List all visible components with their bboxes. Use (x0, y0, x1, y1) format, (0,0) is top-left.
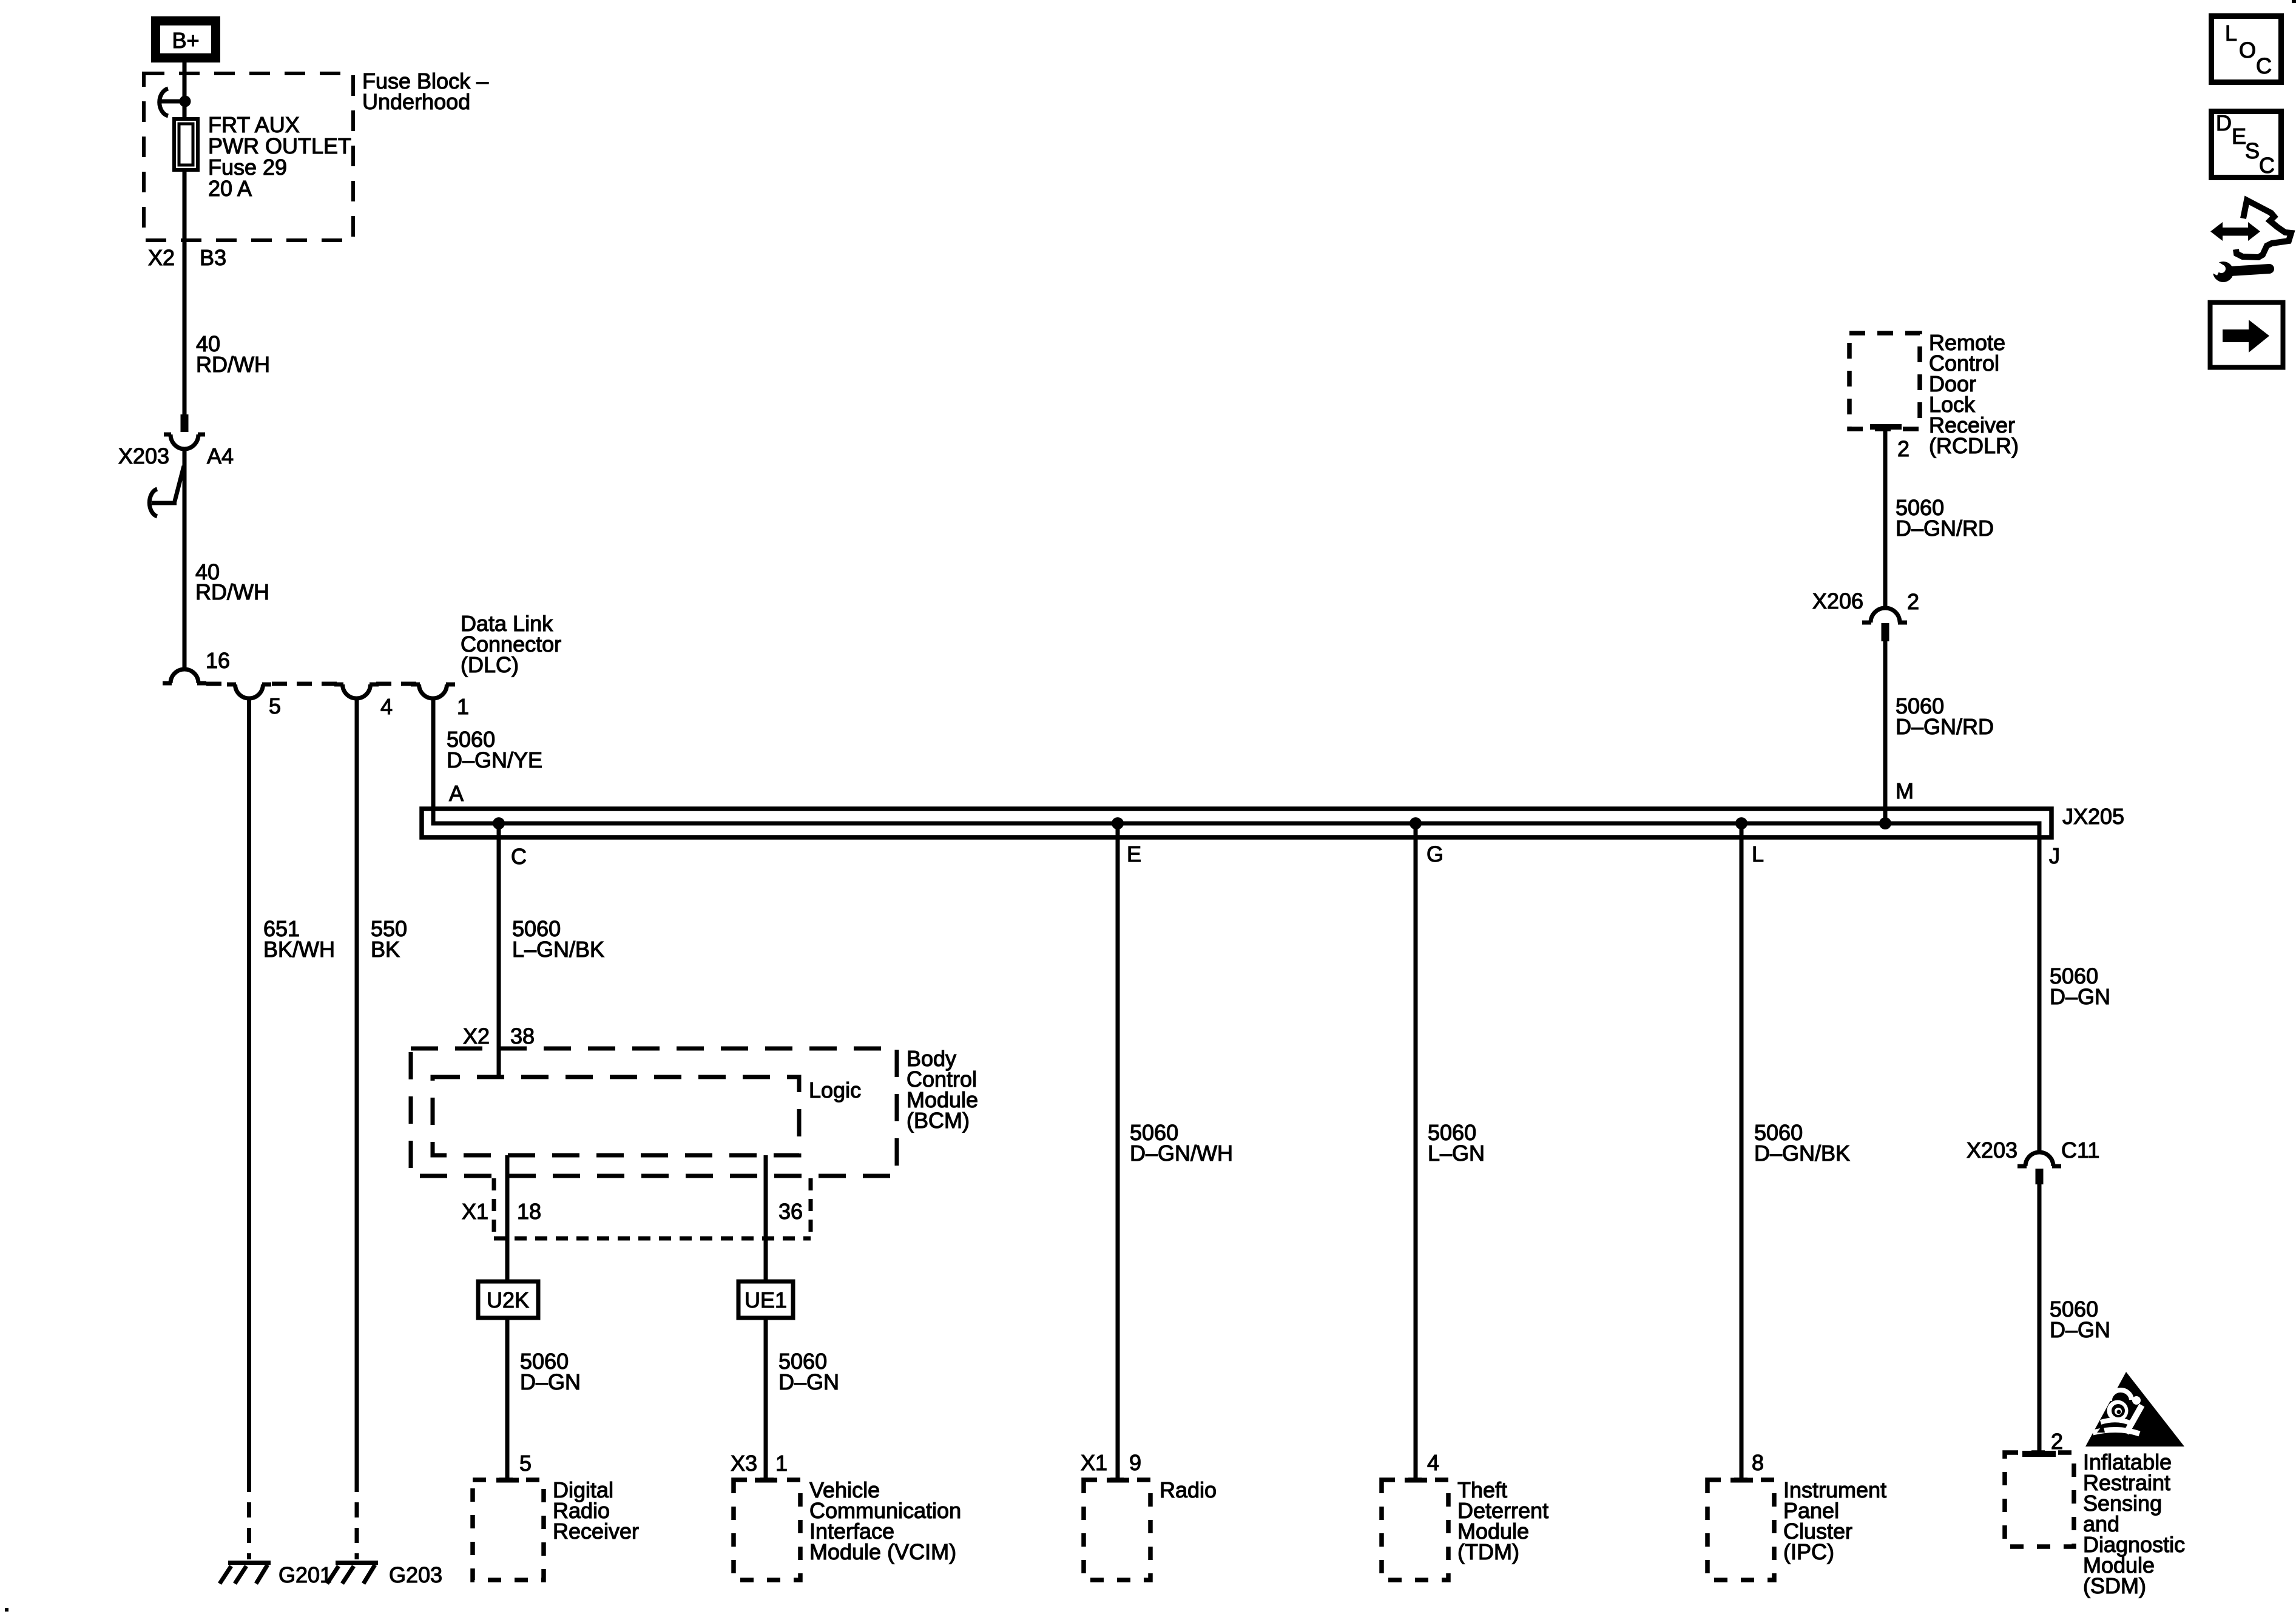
forward arrow icon box (2210, 303, 2283, 368)
body control module BCM dashed box (411, 1048, 897, 1176)
remote control door lock receiver dashed box (1849, 333, 1920, 430)
svg-text:36: 36 (778, 1199, 803, 1224)
TDM label (1457, 1477, 1548, 1564)
svg-text:BK/WH: BK/WH (263, 937, 335, 962)
svg-text:1: 1 (775, 1451, 788, 1476)
svg-text:D–GN: D–GN (2050, 1317, 2110, 1342)
in-line connector X203 C11 female arc (2017, 1152, 2061, 1166)
svg-text:UE1: UE1 (745, 1288, 787, 1312)
ground G203 (327, 1563, 378, 1584)
wire B+ to fuse (183, 62, 187, 117)
svg-text:D–GN/YE: D–GN/YE (447, 748, 542, 772)
wire UE1 to VCIM (764, 1318, 768, 1481)
svg-text:A: A (449, 781, 464, 806)
svg-text:JX205: JX205 (2062, 804, 2124, 829)
radio dashed box (1084, 1478, 1150, 1581)
svg-text:X1: X1 (1081, 1450, 1107, 1475)
VCIM dashed box (734, 1478, 800, 1581)
battery feed B+ symbol (156, 21, 216, 58)
svg-text:X3: X3 (731, 1451, 757, 1476)
svg-text:4: 4 (1427, 1450, 1439, 1475)
svg-text:J: J (2049, 843, 2060, 868)
digital radio receiver dashed box (473, 1478, 544, 1581)
splice pack internal bus wire (433, 698, 2039, 846)
svg-text:1: 1 (457, 694, 469, 719)
svg-text:X203: X203 (1967, 1138, 2017, 1163)
svg-text:2: 2 (2051, 1429, 2063, 1454)
in-line connector X203 C11 male terminal (2036, 1169, 2044, 1184)
data link UE1 box (738, 1281, 793, 1318)
connector X2 B3 label (148, 245, 226, 270)
DESC icon box (2212, 110, 2281, 178)
connector X206 labels (1812, 589, 1919, 614)
svg-text:L–GN: L–GN (1428, 1141, 1485, 1166)
diagnostic connector icon wrench (2205, 257, 2269, 282)
in-line connector X206 female arc (1862, 608, 1907, 623)
junction node L (1735, 817, 1747, 829)
bus bar clip in fuse block (159, 89, 191, 116)
svg-text:Logic: Logic (809, 1078, 861, 1102)
theft deterrent module dashed box (1382, 1478, 1448, 1581)
wire label 5060 D-GN/BK (1754, 1120, 1850, 1166)
svg-text:(IPC): (IPC) (1783, 1539, 1834, 1564)
junction node M (1879, 817, 1891, 829)
BCM X1 connector dashed strip (494, 1178, 811, 1238)
fuse block label (362, 69, 488, 114)
svg-text:RD/WH: RD/WH (196, 352, 270, 377)
wire J 5060 D-GN down to SDM (2038, 838, 2042, 1152)
svg-text:A4: A4 (207, 444, 234, 468)
svg-text:8: 8 (1752, 1450, 1764, 1475)
wire label 5060 D-GN/RD upper (1896, 495, 1994, 541)
svg-text:C: C (2256, 53, 2272, 78)
svg-text:D–GN: D–GN (2050, 984, 2110, 1009)
wire label 550 BK (371, 916, 407, 962)
junction node G (1410, 817, 1422, 829)
svg-text:RD/WH: RD/WH (195, 579, 269, 604)
svg-text:G203: G203 (389, 1562, 442, 1587)
svg-text:2: 2 (1907, 589, 1919, 614)
ground G201 (220, 1563, 271, 1584)
svg-text:(DLC): (DLC) (461, 652, 519, 677)
svg-text:Radio: Radio (1160, 1477, 1217, 1502)
in-line connector X203 A4 female arc (164, 434, 205, 449)
wire label 5060 D-GN/RD lower (1896, 694, 1994, 739)
svg-text:9: 9 (1129, 1450, 1141, 1475)
svg-text:E: E (2232, 124, 2246, 149)
svg-text:20 A: 20 A (208, 176, 252, 201)
instrument panel cluster dashed box (1707, 1478, 1774, 1581)
DLC pin 4 arc (334, 684, 379, 698)
svg-text:18: 18 (517, 1199, 541, 1224)
wire label 5060 D-GN/WH (1130, 1120, 1233, 1166)
svg-text:5: 5 (269, 694, 281, 718)
svg-text:G201: G201 (279, 1562, 332, 1587)
svg-text:X2: X2 (463, 1024, 490, 1048)
IPC label (1783, 1477, 1886, 1564)
wire BCM pin 36 to UE1 (764, 1155, 768, 1281)
svg-text:16: 16 (206, 648, 230, 673)
fuse label (208, 112, 351, 201)
wire label 5060 D-GN upper (2050, 964, 2110, 1009)
svg-text:5: 5 (519, 1451, 532, 1476)
svg-text:B3: B3 (200, 245, 226, 270)
svg-text:Receiver: Receiver (553, 1519, 639, 1544)
svg-text:B+: B+ (172, 28, 199, 53)
svg-text:D–GN/RD: D–GN/RD (1896, 714, 1994, 739)
svg-text:M: M (1896, 778, 1914, 803)
SDM label (2083, 1450, 2185, 1598)
svg-text:(RCDLR): (RCDLR) (1929, 433, 2019, 458)
wire E 5060 D-GN/WH to radio (1116, 823, 1120, 1481)
in-line connector X206 male terminal (1882, 623, 1889, 641)
wire label 651 BK/WH (263, 916, 335, 962)
wire 550 BK pin4 to G203 (355, 698, 359, 1559)
svg-text:(BCM): (BCM) (907, 1108, 970, 1133)
inflatable restraint SDM dashed box (2005, 1451, 2074, 1547)
wire C 5060 L-GN/BK to BCM (497, 823, 501, 1079)
wire BCM pin 18 to U2K (505, 1155, 510, 1281)
wire M 5060 D-GN/RD up to X206 (1883, 641, 1888, 823)
svg-text:38: 38 (510, 1024, 535, 1048)
wire label 40 RD/WH lower (195, 559, 269, 604)
wire label 5060 L-GN/BK (512, 916, 604, 962)
pin labels X1 9 (1081, 1450, 1141, 1475)
svg-text:D–GN: D–GN (778, 1369, 839, 1394)
svg-text:C: C (2259, 153, 2275, 178)
wire X206 to RCDLR (1883, 427, 1888, 609)
svg-text:E: E (1127, 842, 1141, 866)
BCM logic dashed box (433, 1077, 799, 1155)
junction node E (1112, 817, 1124, 829)
pin labels X3 1 (731, 1451, 788, 1476)
wire through fuse down to connector X203 (183, 172, 187, 414)
wire label 5060 D-GN (UE1) (778, 1349, 839, 1394)
svg-text:X2: X2 (148, 245, 175, 270)
connector X203 A4 labels (118, 444, 234, 468)
BCM X1 pin labels X1 18 36 (462, 1199, 803, 1224)
svg-text:D: D (2216, 110, 2232, 135)
svg-text:(TDM): (TDM) (1457, 1539, 1519, 1564)
svg-text:X203: X203 (118, 444, 169, 468)
page mark top right (2292, 0, 2296, 3)
wire label 5060 D-GN/YE (447, 727, 542, 772)
svg-text:D–GN/BK: D–GN/BK (1754, 1141, 1850, 1166)
data link U2K box (478, 1281, 538, 1318)
svg-text:2: 2 (1897, 436, 1909, 461)
digital radio receiver label (553, 1477, 639, 1544)
wire L 5060 D-GN/BK to IPC (1740, 823, 1744, 1481)
airbag warning triangle (2085, 1372, 2184, 1447)
wire X203 C11 to SDM (2038, 1184, 2042, 1454)
junction node C (493, 817, 505, 829)
svg-text:D–GN/WH: D–GN/WH (1130, 1141, 1233, 1166)
page mark bottom left (5, 1608, 8, 1612)
svg-text:D–GN: D–GN (520, 1369, 581, 1394)
wire label 40 RD/WH upper (196, 331, 270, 377)
LOC icon box (2212, 16, 2281, 83)
svg-text:G: G (1427, 842, 1443, 866)
svg-text:BK: BK (371, 937, 400, 962)
svg-text:X1: X1 (462, 1199, 488, 1224)
fuse block underhood dashed box (144, 73, 353, 240)
svg-text:U2K: U2K (487, 1288, 529, 1312)
DLC pin number labels (269, 694, 469, 719)
RCDLR label (1929, 330, 2019, 458)
wire label 5060 L-GN (1428, 1120, 1485, 1166)
svg-text:4: 4 (380, 694, 393, 719)
wire below X203 with clip take-out (149, 449, 184, 668)
DLC pin 1 arc (411, 684, 455, 698)
svg-text:C11: C11 (2061, 1138, 2099, 1163)
svg-text:L: L (2225, 21, 2237, 46)
wire 651 BK/WH pin5 to G201 (247, 698, 251, 1559)
svg-text:Module (VCIM): Module (VCIM) (809, 1539, 956, 1564)
svg-text:C: C (511, 844, 527, 869)
diagnostic connector icon car outline (2236, 200, 2291, 257)
svg-text:O: O (2239, 38, 2256, 62)
splice pack JX205 outline (422, 809, 2051, 837)
fuse FRT AUX PWR OUTLET Fuse 29 20A (174, 119, 198, 170)
svg-text:(SDM): (SDM) (2083, 1573, 2146, 1598)
DLC pin 16 female arc (163, 669, 206, 683)
DLC label (461, 611, 561, 677)
svg-text:X206: X206 (1812, 589, 1863, 613)
wire 5060 D-GN/YE pin1 to splice pack (431, 698, 436, 823)
BCM label (907, 1046, 978, 1133)
svg-text:L: L (1752, 842, 1764, 866)
in-line connector X203 A4 male terminal (181, 414, 189, 432)
DLC connector dashed body line (206, 682, 416, 686)
VCIM label (809, 1477, 961, 1564)
wire U2K to digital radio receiver (505, 1318, 510, 1481)
wire G 5060 L-GN to TDM (1414, 823, 1418, 1481)
connector X203 C11 labels (1967, 1138, 2099, 1163)
svg-text:D–GN/RD: D–GN/RD (1896, 516, 1994, 541)
diagnostic connector icon double arrow (2210, 222, 2260, 241)
DLC pin 5 arc (227, 684, 271, 698)
BCM pin labels X2 38 (463, 1024, 535, 1048)
wire label 5060 D-GN lower (2050, 1297, 2110, 1342)
svg-text:L–GN/BK: L–GN/BK (512, 937, 604, 962)
wire label 5060 D-GN (U2K) (520, 1349, 581, 1394)
svg-text:S: S (2245, 138, 2260, 163)
svg-text:Underhood: Underhood (362, 89, 470, 114)
